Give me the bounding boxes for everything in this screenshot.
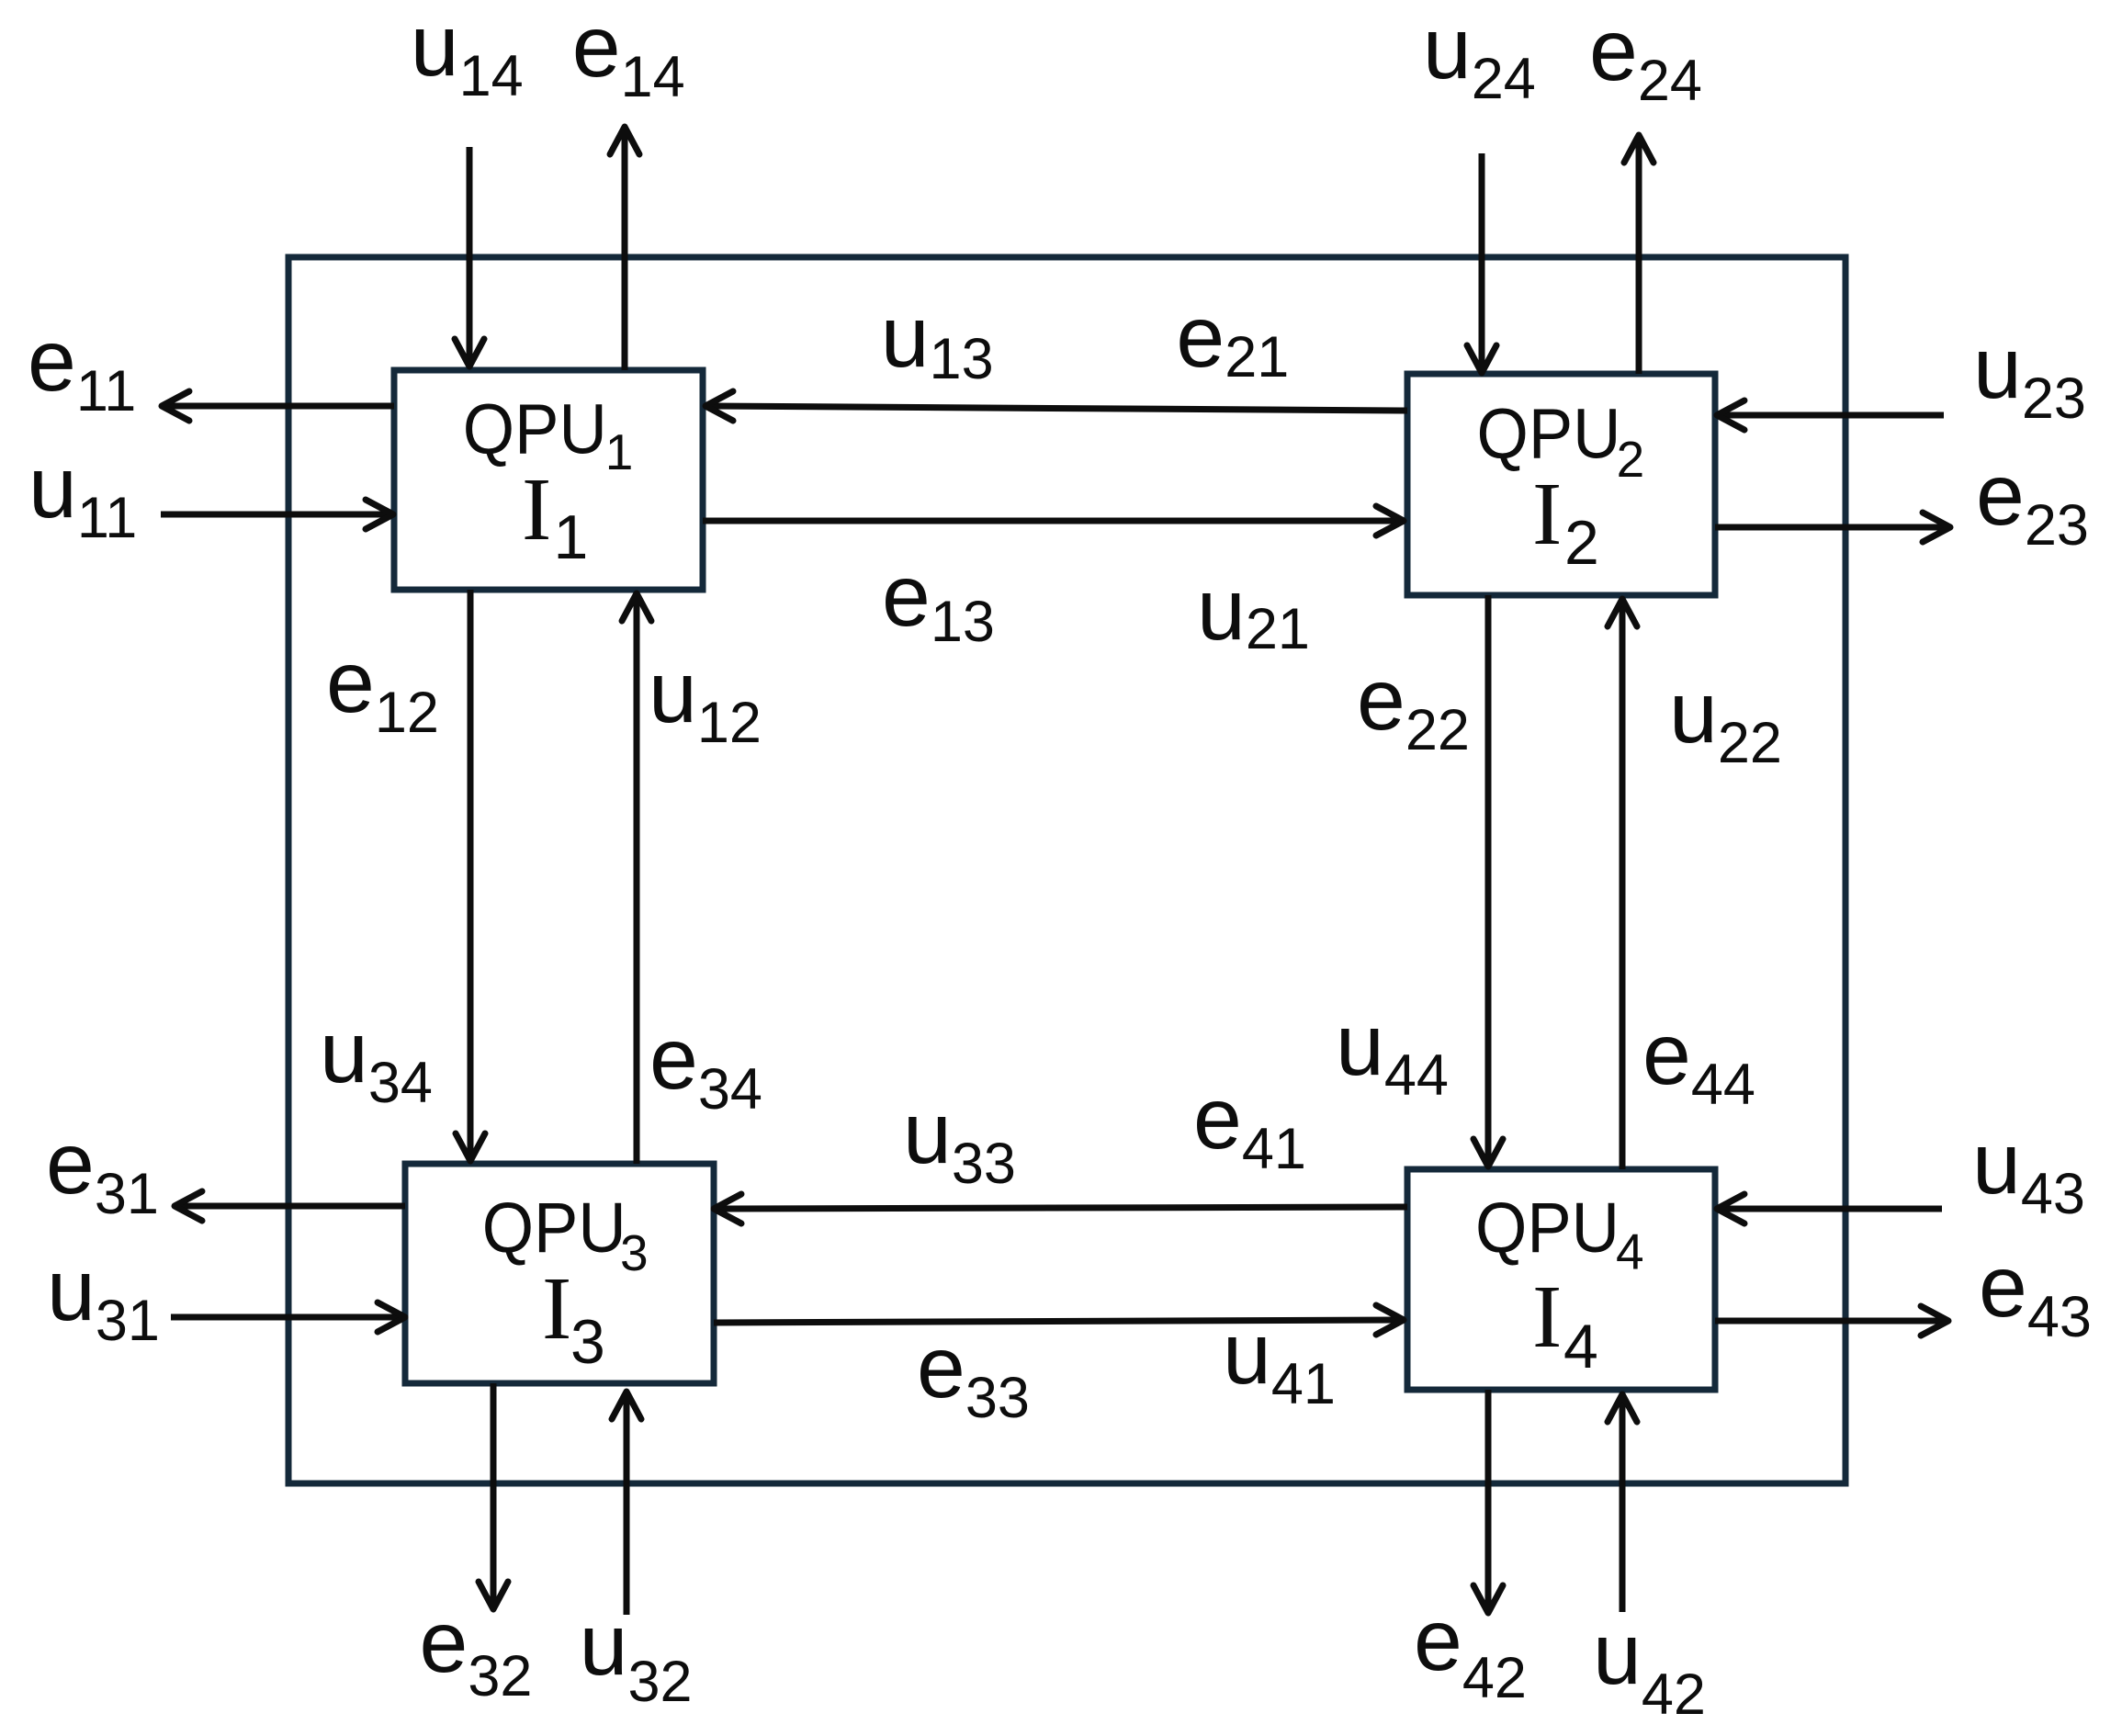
arrow e22 from QPU2 to QPU4 (1473, 595, 1503, 1167)
arrow u12 from QPU3 to QPU1 (622, 593, 651, 1164)
arrow e42 out of QPU4 bottom (1473, 1390, 1503, 1613)
svg-text:I: I (1532, 465, 1562, 563)
svg-text:1: 1 (605, 423, 634, 480)
svg-text:4: 4 (1563, 1312, 1598, 1381)
arrow u32 into QPU3 bottom (612, 1392, 641, 1615)
arrow u14 into QPU1 top (455, 147, 484, 366)
svg-text:QPU: QPU (463, 390, 607, 469)
arrow e32 out of QPU3 bottom (479, 1383, 508, 1609)
arrow u13/e21 from QPU2 to QPU1 (705, 391, 1407, 421)
svg-text:1: 1 (554, 502, 589, 572)
arrow u42 into QPU4 bottom (1608, 1394, 1637, 1612)
svg-text:I: I (522, 460, 551, 558)
arrow e43 out of QPU4 right (1715, 1306, 1948, 1336)
arrow e23 out of QPU2 right (1715, 513, 1950, 542)
arrow e33/u41 from QPU3 to QPU4 (714, 1305, 1404, 1335)
svg-text:3: 3 (570, 1307, 605, 1377)
svg-text:2: 2 (1564, 508, 1599, 578)
svg-text:4: 4 (1616, 1223, 1644, 1280)
QPU1 block (394, 370, 703, 590)
arrow e13/u21 from QPU1 to QPU2 (703, 506, 1404, 535)
svg-text:I: I (542, 1259, 571, 1358)
svg-text:QPU: QPU (1477, 395, 1621, 474)
arrow e31 out of QPU3 left (175, 1191, 405, 1221)
arrow u43 into QPU4 right (1717, 1194, 1942, 1223)
svg-text:2: 2 (1617, 431, 1645, 488)
arrow e24 out of QPU2 top (1624, 135, 1654, 374)
QPU2 block (1407, 374, 1715, 595)
arrow e11 out of QPU1 left (162, 391, 394, 421)
arrow u31 into QPU3 left (171, 1302, 405, 1332)
svg-text:QPU: QPU (482, 1189, 626, 1268)
QPU3 block (405, 1164, 714, 1383)
arrow u23 into QPU2 right (1717, 400, 1944, 430)
svg-text:I: I (1532, 1268, 1562, 1366)
arrow u24 into QPU2 top (1467, 153, 1496, 373)
arrow e14 out of QPU1 top (610, 127, 639, 370)
outer enclosure rectangle (288, 257, 1845, 1483)
arrow u22 from QPU4 to QPU2 (1608, 599, 1637, 1169)
arrow e12 from QPU1 to QPU3 (456, 590, 485, 1161)
QPU4 block (1407, 1169, 1715, 1390)
arrow u33/e41 from QPU4 to QPU3 (714, 1194, 1407, 1223)
svg-text:3: 3 (620, 1224, 649, 1281)
arrow u11 into QPU1 left (161, 500, 393, 529)
svg-text:QPU: QPU (1475, 1189, 1620, 1268)
